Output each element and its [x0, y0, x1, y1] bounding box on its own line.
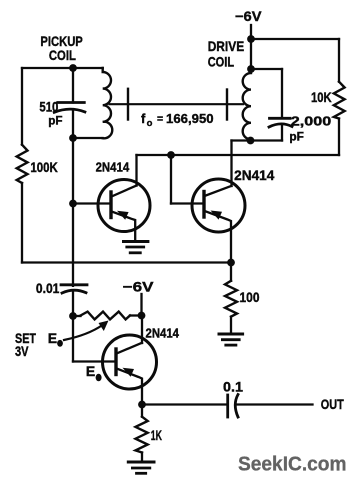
svg-text:E: E: [86, 363, 95, 379]
svg-text:f: f: [141, 111, 146, 126]
svg-text:10K: 10K: [311, 89, 332, 105]
svg-text:−6V: −6V: [235, 8, 262, 24]
svg-text:OUT: OUT: [321, 396, 344, 412]
svg-text:COIL: COIL: [208, 54, 235, 70]
svg-text:2,000: 2,000: [291, 114, 332, 129]
svg-text:100: 100: [240, 289, 260, 305]
svg-text:0.01: 0.01: [36, 280, 60, 296]
svg-text:−6V: −6V: [123, 279, 155, 295]
svg-text:2N414: 2N414: [96, 160, 130, 175]
svg-text:COIL: COIL: [49, 47, 76, 63]
svg-text:E: E: [48, 330, 57, 346]
svg-text:pF: pF: [48, 114, 62, 128]
svg-text:pF: pF: [289, 130, 304, 144]
svg-text:DRIVE: DRIVE: [208, 38, 245, 54]
svg-text:0.1: 0.1: [223, 379, 243, 395]
svg-text:1K: 1K: [151, 427, 162, 443]
svg-text:510: 510: [39, 99, 58, 115]
svg-text:SeekIC.com: SeekIC.com: [238, 454, 347, 476]
svg-text:2N414: 2N414: [234, 168, 275, 183]
svg-text:=: =: [157, 113, 163, 125]
svg-text:100K: 100K: [30, 159, 57, 175]
svg-text:166,950: 166,950: [166, 111, 214, 126]
svg-text:o: o: [147, 118, 153, 129]
svg-text:2N414: 2N414: [146, 326, 180, 341]
svg-text:3V: 3V: [15, 343, 29, 359]
